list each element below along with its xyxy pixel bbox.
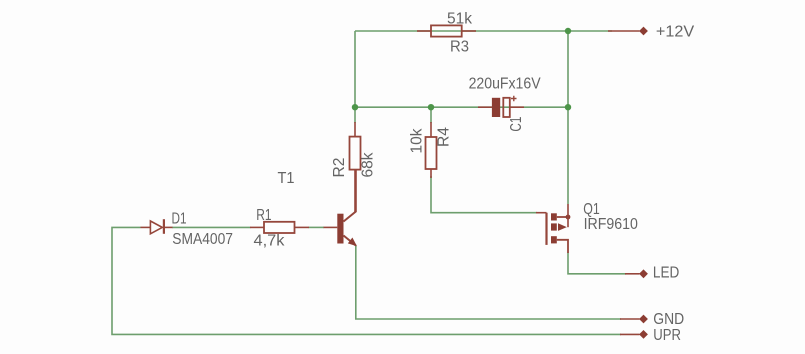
wire LED net from Q1 source xyxy=(568,253,626,274)
svg-text:IRF9610: IRF9610 xyxy=(584,216,638,233)
ground terminal GND xyxy=(620,315,648,324)
terminal LED xyxy=(625,269,648,278)
resistor R4 xyxy=(426,122,437,178)
mosfet Q1 xyxy=(536,204,570,253)
wire GND net from T1 emitter xyxy=(356,246,621,320)
svg-text:R4: R4 xyxy=(435,127,452,147)
wire mid rail (capacitor net) xyxy=(355,106,568,108)
wire left vertical from top rail to mid rail xyxy=(354,31,356,107)
svg-text:R2: R2 xyxy=(331,157,348,177)
node junction dot at left mid rail xyxy=(352,104,358,110)
wire R4 top pin net xyxy=(430,107,432,123)
svg-text:R3: R3 xyxy=(450,39,469,56)
svg-text:C1: C1 xyxy=(508,117,525,132)
svg-text:+12V: +12V xyxy=(656,24,695,41)
svg-text:T1: T1 xyxy=(278,170,295,187)
power terminal +12V xyxy=(608,27,648,36)
svg-text:SMA4007: SMA4007 xyxy=(172,231,233,248)
svg-text:D1: D1 xyxy=(172,211,187,228)
svg-text:10k: 10k xyxy=(409,128,426,154)
wire right vertical +12V to mosfet xyxy=(567,31,569,204)
diode D1 xyxy=(141,219,173,234)
svg-text:LED: LED xyxy=(653,265,679,282)
wire +12V top rail xyxy=(355,30,612,32)
transistor T1 xyxy=(324,170,358,247)
svg-text:51k: 51k xyxy=(447,11,473,28)
svg-text:68k: 68k xyxy=(360,152,377,178)
svg-text:UPR: UPR xyxy=(653,327,681,344)
wire R2 top pin net xyxy=(354,107,356,123)
resistor R1 xyxy=(250,222,309,233)
capacitor C1 xyxy=(478,96,524,117)
svg-text:GND: GND xyxy=(653,311,684,328)
wire base net R1 to T1 xyxy=(309,226,325,228)
node junction dot R4 top xyxy=(428,104,434,110)
resistor R2 xyxy=(350,122,361,212)
node junction dot mid rail right xyxy=(565,104,571,110)
wire UPR net: diode anode, left vertical and bottom run xyxy=(112,227,621,334)
node junction dot top rail right xyxy=(565,28,571,34)
svg-text:4,7k: 4,7k xyxy=(254,233,286,250)
wire diode cathode to R1 xyxy=(172,226,251,228)
svg-text:R1: R1 xyxy=(256,207,271,224)
resistor R3 xyxy=(417,25,476,36)
terminal UPR xyxy=(620,330,648,339)
wire gate net from R4 bottom xyxy=(431,176,537,213)
svg-text:220uFx16V: 220uFx16V xyxy=(469,75,541,92)
